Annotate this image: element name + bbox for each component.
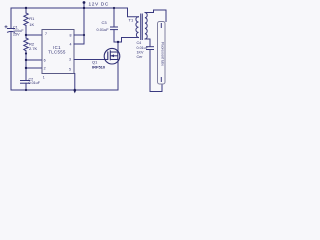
svg-text:T1: T1: [129, 17, 134, 22]
svg-text:25V: 25V: [13, 33, 20, 37]
svg-text:0.01uF: 0.01uF: [97, 27, 110, 32]
svg-text:1: 1: [43, 76, 45, 80]
svg-text:7: 7: [45, 32, 47, 36]
svg-text:4: 4: [70, 42, 72, 46]
svg-text:5: 5: [69, 68, 71, 72]
svg-text:2.7K: 2.7K: [29, 46, 38, 51]
svg-text:0.01uF: 0.01uF: [29, 81, 41, 85]
svg-text:R1: R1: [29, 16, 35, 21]
svg-text:1K: 1K: [29, 22, 34, 27]
svg-text:3: 3: [69, 58, 71, 62]
svg-text:IRF510: IRF510: [92, 65, 106, 70]
svg-text:Fluorescent tube: Fluorescent tube: [160, 42, 164, 66]
svg-text:C4: C4: [137, 41, 142, 45]
svg-text:2: 2: [44, 66, 46, 70]
svg-text:12V DC: 12V DC: [89, 2, 109, 8]
svg-text:0.01uF: 0.01uF: [137, 46, 149, 50]
svg-text:C3: C3: [102, 20, 108, 25]
svg-text:Cer: Cer: [137, 55, 144, 59]
svg-text:TLC555: TLC555: [48, 50, 66, 55]
svg-text:1KV: 1KV: [137, 50, 145, 54]
svg-text:6: 6: [44, 58, 46, 62]
svg-text:8: 8: [70, 33, 72, 37]
